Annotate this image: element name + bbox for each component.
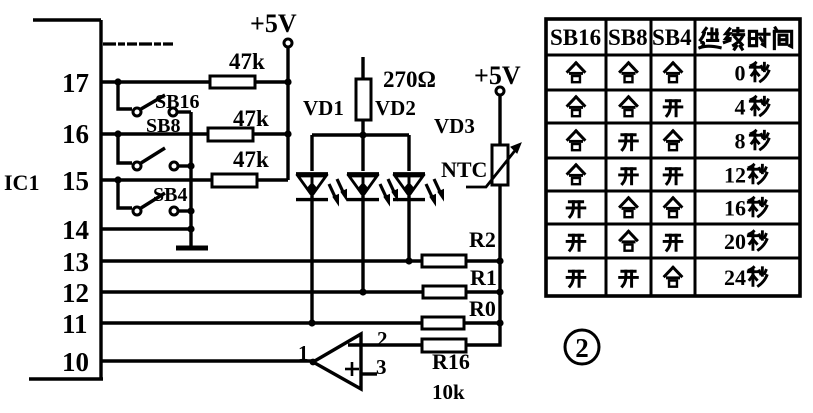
node pin14 junction: [187, 225, 194, 232]
LED VD3: [393, 174, 444, 205]
table header yanxu shijian: [700, 28, 792, 49]
node pin16-SB8 junction: [114, 130, 121, 137]
ground: [176, 246, 208, 251]
svg-text:R0: R0: [469, 296, 496, 321]
svg-text:R16: R16: [432, 349, 470, 374]
wire VD2 cathode: [361, 196, 364, 292]
wire VD3 cathode: [407, 196, 410, 261]
wire pin3 stub: [361, 372, 377, 375]
svg-text:16: 16: [62, 119, 89, 149]
svg-text:VD3: VD3: [434, 114, 475, 138]
node rail-pin17: [284, 78, 291, 85]
wire pin 15: [101, 178, 212, 181]
wire R2 right: [466, 259, 500, 262]
resistor R2: [422, 255, 466, 267]
wire pin 16: [101, 132, 207, 135]
svg-text:47k: 47k: [233, 147, 269, 172]
node op-amp output: [310, 359, 317, 366]
node SB4 junction: [187, 207, 194, 214]
svg-text:0: 0: [735, 61, 746, 86]
wire LED anode rail: [312, 133, 409, 136]
wire VD3 anode drop: [407, 135, 410, 171]
node pin17-SB16 junction: [114, 78, 121, 85]
wire switch common rail: [189, 112, 192, 248]
wire pin 13: [101, 259, 422, 262]
table row3 cells: [568, 129, 769, 154]
svg-text:17: 17: [62, 68, 89, 98]
wire 47k-b to +5V rail: [253, 132, 288, 135]
table row7 cells: [567, 265, 767, 290]
svg-text:1: 1: [298, 341, 309, 365]
wire R0 right: [464, 321, 500, 324]
svg-text:11: 11: [62, 309, 88, 339]
wire 47k-a to +5V rail: [255, 80, 288, 83]
wire VD2 anode drop: [361, 135, 364, 171]
svg-text:VD1: VD1: [303, 96, 344, 120]
wire pin 12: [101, 290, 423, 293]
svg-text:VD2: VD2: [375, 96, 416, 120]
node pin11-VD1: [308, 319, 315, 326]
svg-text:R1: R1: [470, 265, 497, 290]
svg-text:47k: 47k: [233, 106, 269, 131]
resistor R-47k-b: [208, 128, 253, 141]
resistor R0: [422, 317, 464, 329]
wire pin 17: [101, 80, 210, 83]
wire VD1 cathode: [310, 196, 313, 323]
svg-text:10k: 10k: [432, 380, 465, 404]
resistor R1: [423, 286, 466, 298]
node pin13-VD3: [405, 257, 412, 264]
LED VD1: [296, 174, 347, 205]
resistor R16: [422, 339, 466, 352]
wire 47k-c to +5V rail: [257, 178, 288, 181]
table grid: [546, 19, 800, 296]
LED VD2: [347, 174, 398, 205]
svg-text:IC1: IC1: [4, 170, 39, 195]
svg-text:12: 12: [62, 278, 89, 308]
IC IC1 outline: [29, 20, 103, 379]
svg-text:+5V: +5V: [474, 61, 521, 90]
svg-text:270Ω: 270Ω: [383, 67, 436, 92]
op-amp plus sign: [345, 362, 359, 376]
node R2-rail: [496, 257, 503, 264]
svg-text:SB4: SB4: [153, 184, 187, 206]
table row1 cells: [568, 61, 769, 86]
wire pin 18 stub: [103, 42, 174, 45]
table row6 cells: [567, 229, 767, 254]
svg-text:16: 16: [724, 196, 746, 221]
svg-text:24: 24: [724, 265, 746, 290]
svg-text:12: 12: [724, 163, 746, 188]
node rail-VD2: [359, 131, 366, 138]
node R0-rail: [496, 319, 503, 326]
wire inverting input pin2 to R16: [348, 343, 422, 346]
resistor 270ohm: [356, 57, 371, 135]
svg-text:2: 2: [377, 327, 388, 351]
wire pin 11: [101, 321, 422, 324]
+5V terminal right: [496, 87, 504, 145]
svg-text:3: 3: [376, 355, 387, 379]
table row5 cells: [567, 196, 767, 221]
switch SB8: [118, 134, 191, 170]
svg-text:+5V: +5V: [250, 9, 297, 38]
svg-text:8: 8: [735, 129, 746, 154]
node rail-pin16: [284, 130, 291, 137]
svg-text:SB16: SB16: [155, 91, 199, 113]
node pin12-VD2: [359, 288, 366, 295]
table row4 cells: [568, 163, 767, 188]
svg-text:NTC: NTC: [441, 157, 487, 182]
wire pin 10: [101, 359, 313, 362]
wire VD1 anode drop: [310, 135, 313, 171]
svg-text:SB16: SB16: [550, 25, 601, 50]
thermistor NTC: [466, 143, 521, 187]
svg-text:14: 14: [62, 215, 89, 245]
svg-text:15: 15: [62, 166, 89, 196]
figure number 2 circled: [565, 330, 599, 364]
wire R1 right: [466, 290, 500, 293]
svg-text:4: 4: [735, 95, 746, 120]
node pin15-SB4 junction: [114, 176, 121, 183]
resistor R-47k-a: [210, 76, 255, 88]
svg-text:2: 2: [575, 333, 589, 363]
wire NTC to R16: [466, 185, 500, 345]
node R1-rail: [496, 288, 503, 295]
switch SB16: [118, 82, 191, 116]
svg-text:SB4: SB4: [652, 25, 692, 50]
svg-text:SB8: SB8: [608, 25, 648, 50]
switch SB4: [118, 180, 191, 215]
svg-text:47k: 47k: [229, 49, 265, 74]
svg-text:10: 10: [62, 347, 89, 377]
svg-text:13: 13: [62, 247, 89, 277]
node SB8 junction: [187, 162, 194, 169]
svg-text:20: 20: [724, 229, 746, 254]
svg-text:R2: R2: [469, 227, 496, 252]
wire pin 14: [101, 227, 191, 230]
svg-text:SB8: SB8: [146, 115, 180, 137]
+5V terminal left: [284, 39, 292, 180]
table row2 cells: [568, 95, 769, 120]
resistor R-47k-c: [212, 174, 257, 187]
op-amp N1: [313, 334, 361, 389]
